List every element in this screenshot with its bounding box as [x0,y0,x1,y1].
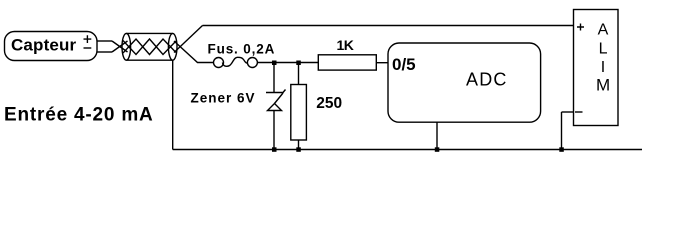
svg-text:250: 250 [316,95,342,112]
cable shield drain wire [172,60,174,149]
ADC box U1 [388,43,541,122]
power supply box ALIM [574,10,619,126]
ALIM minus terminal mark [575,111,583,113]
cable sheath top line [126,32,172,34]
sensor plus terminal mark [84,35,92,43]
wire 250 resistor bottom stub [298,140,300,150]
wire zener bottom stub [273,111,275,150]
fuse F1 left cap circle [214,58,224,68]
wire twist crossing left [112,41,128,52]
zener diode D1 cathode bar [266,90,286,93]
junction node fuse-zener [272,61,277,66]
svg-text:I: I [601,59,605,76]
resistor 1K body [318,55,376,70]
svg-text:Entrée 4-20 mA: Entrée 4-20 mA [4,105,154,126]
junction node rail-ADC [435,147,440,152]
wire ADC ground [436,122,438,149]
fuse F1 right cap circle [247,58,257,68]
shielded cable sheath left ellipse [122,33,131,60]
wire ALIM minus horizontal [562,111,574,113]
svg-text:Fus. 0,2A: Fus. 0,2A [208,41,276,56]
twisted pair zigzag wire A [123,39,176,55]
svg-text:L: L [599,40,608,57]
junction node rail-zener [272,147,277,152]
wire ALIM minus drop [561,112,563,150]
ALIM plus terminal mark [577,24,584,31]
zener diode D1 slash [275,93,284,104]
wire fuse to 1K resistor [257,62,318,64]
sensor box (Capteur) [5,32,98,61]
fuse F1 wavy element [222,57,247,66]
wire 250 resistor top stub [298,63,300,85]
wire twist crossing left 2 [112,41,128,52]
svg-text:Zener 6V: Zener 6V [191,90,256,105]
wire twist crossing right to fuse [174,41,214,63]
junction node rail-ALIM [559,147,564,152]
wire 1K to ADC [376,62,388,64]
wire zener top stub [273,63,275,93]
wire twist crossing right to top rail [174,26,203,53]
bottom ground rail wire [173,149,642,151]
svg-text:0/5: 0/5 [392,55,416,74]
svg-text:ADC: ADC [466,69,508,89]
cable sheath bottom line [126,59,172,61]
shielded cable sheath right ellipse [168,33,177,60]
sensor minus terminal mark [84,47,92,49]
junction node rail-250 [296,147,301,152]
junction node fuse-250 [296,61,301,66]
wire sensor + output [97,40,112,42]
svg-text:Capteur: Capteur [11,35,77,54]
zener diode D1 anode triangle [268,104,282,111]
resistor 250 body [291,85,307,141]
twisted pair zigzag wire B [123,39,176,55]
svg-text:M: M [596,76,610,95]
wire sensor - output [97,51,112,53]
svg-text:A: A [598,21,609,38]
svg-text:1K: 1K [337,37,354,53]
top supply rail wire [203,25,574,27]
